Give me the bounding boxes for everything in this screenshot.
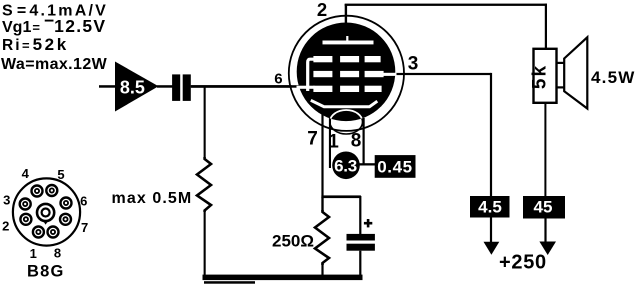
wire electrolytic to ground rail [359,251,361,277]
svg-text:4.5: 4.5 [478,198,502,217]
input signal triangle 8.5 [115,62,159,112]
base pin 3 circle [20,199,31,210]
tube cathode hat [311,100,378,106]
base pin 8 circle [48,227,59,238]
base label 4 [22,166,30,181]
tube pin3 connection white [379,73,397,76]
tube anode top bar [323,41,374,45]
tube pin2 connection white [346,36,348,42]
wire 4.5 box to arrow [490,218,492,244]
wire heater circle to 0.45 box [358,163,376,165]
label S=4.1mA/V [2,3,108,20]
svg-text:4: 4 [22,166,30,181]
label max 0.5M [112,190,193,207]
label Vg1=-12.5V [2,11,106,37]
ground rail bottom [203,275,363,284]
label +250 supply [499,252,547,274]
svg-text:+250: +250 [499,252,547,274]
svg-text:8: 8 [54,246,61,261]
wire pin2 anode to top [345,4,347,32]
tube pin6 connection white [297,86,315,89]
speaker horn [564,37,587,108]
screen current 4.5 box [470,196,510,218]
wire resistor to ground rail [204,212,206,276]
tube heater circle lower arc [330,110,363,134]
base label 7 [81,220,88,235]
base label 8 [54,246,61,261]
wire top horizontal to output transformer [345,4,547,6]
tube V1 envelope outer circle [289,16,404,131]
base pin 4 circle [32,186,43,197]
wire cathode to 250 resistor [321,197,323,211]
base center spigot [37,204,54,225]
svg-text:2: 2 [2,219,9,234]
base pin 1 circle [33,227,44,238]
svg-text:8: 8 [351,131,362,152]
tube base B8G outline [13,178,80,245]
pin label 7 [307,129,318,150]
speaker connection stubs [557,62,565,89]
svg-text:3: 3 [408,54,419,75]
wire triangle to capacitor [157,85,173,88]
svg-text:1: 1 [328,132,339,153]
label 4.5W [591,68,635,87]
base pin 6 circle [61,198,72,209]
wire capacitor to grid pin 6 [191,85,292,88]
wire 45 box to arrow [544,219,546,244]
svg-text:Ri=52k: Ri=52k [2,35,69,54]
pin label 8 [351,131,362,152]
wire cathode branch horizontal [321,195,361,198]
label Wa=max.12W [1,56,108,73]
svg-text:B8G: B8G [27,262,65,280]
svg-text:Wa=max.12W: Wa=max.12W [1,56,108,73]
svg-text:8.5: 8.5 [120,77,145,97]
arrow anode supply [539,242,556,256]
pin label 6 [274,70,282,87]
tube grid dashes row1 [313,56,380,62]
capacitor C2 electrolytic plates [347,234,375,251]
resistor R2 250 ohm [315,210,329,265]
svg-text:3: 3 [3,193,10,208]
svg-text:4.5W: 4.5W [591,68,635,87]
svg-text:1: 1 [30,246,37,261]
wire 250 resistor to ground rail [321,263,323,276]
tube heater circle white arc [330,110,363,134]
svg-text:0.45: 0.45 [377,158,413,177]
tube grid dashes row2 [313,71,383,77]
heater current 0.45 box [375,155,416,178]
base label 3 [3,193,10,208]
svg-text:max 0.5M: max 0.5M [112,190,193,207]
base pin 7 circle [60,214,71,225]
capacitor C1 coupling [172,74,191,101]
wire pin1 heater [329,118,331,168]
base label 1 [30,246,37,261]
svg-text:5k: 5k [530,64,551,89]
pin label 1 [328,132,339,153]
wire down to 5k primary [545,4,547,50]
svg-text:250Ω: 250Ω [272,231,314,250]
base pin 2 circle [20,214,31,225]
tube grid dashes row3 [313,86,381,92]
wire input left [99,85,116,88]
wire pin3 down [490,73,492,197]
transformer primary 5k box [530,49,557,103]
label plus electrolytic [364,219,372,227]
base pin 5 circle [46,185,57,196]
svg-text:6: 6 [274,70,282,87]
svg-text:2: 2 [317,0,327,20]
svg-text:6.3: 6.3 [334,156,357,175]
wire pin7 cathode down [321,105,323,212]
node junction grid resistor [204,86,206,158]
svg-text:6: 6 [80,194,87,209]
svg-text:45: 45 [534,198,553,217]
svg-text:7: 7 [81,220,88,235]
base label 6 [80,194,87,209]
tube grid bracket left [308,59,314,91]
resistor R1 max 0.5M [197,157,211,212]
wire pin8 heater [363,118,365,165]
wire pin3 screen to right [396,73,491,75]
label 250 ohm [272,231,314,250]
label Ri=52k [2,35,69,54]
base label 5 [57,167,64,182]
arrow screen supply [484,242,500,255]
svg-text:7: 7 [307,129,318,150]
base label 2 [2,219,9,234]
tube V1 electrode disc [297,23,396,122]
heater voltage 6.3 circle [332,152,360,180]
pin label 3 [408,54,419,75]
wire capacitor branch down [359,196,361,235]
anode current 45 box [523,196,565,219]
wire 5k to 45 box [544,103,546,197]
base label B8G [27,262,65,280]
pin label 2 [317,0,327,20]
svg-text:5: 5 [57,167,64,182]
wire pin6 grid [191,85,301,88]
